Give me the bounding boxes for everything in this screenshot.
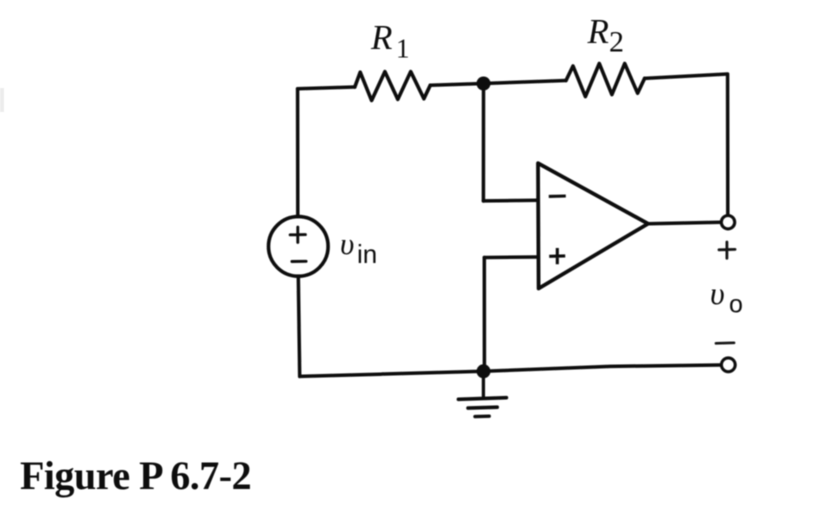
label vin bbox=[340, 226, 377, 269]
output terminal + (open circle top) bbox=[721, 216, 734, 229]
wire R1 to node A bbox=[430, 84, 483, 86]
wire top-left horizontal bbox=[298, 87, 355, 89]
wire node A down to inverting input bbox=[482, 84, 486, 202]
svg-text:υ: υ bbox=[340, 226, 354, 261]
svg-text:2: 2 bbox=[609, 26, 624, 59]
wire left vertical (top corner to source) bbox=[296, 89, 300, 217]
svg-text:R: R bbox=[370, 18, 392, 57]
wire inverting input horizontal bbox=[483, 199, 538, 203]
svg-text:1: 1 bbox=[396, 34, 410, 64]
wire bottom-left vertical (source to rail) bbox=[298, 276, 299, 376]
wire noninverting input horizontal bbox=[484, 255, 538, 259]
wire noninverting input down to ground rail bbox=[483, 258, 487, 372]
minus polarity mark at vo bbox=[716, 341, 734, 344]
ground junction dot bbox=[477, 364, 491, 378]
wire bottom rail left bbox=[300, 371, 484, 376]
caption Figure P 6.7-2 bbox=[20, 453, 251, 498]
label vo bbox=[710, 275, 743, 319]
svg-text:Figure P 6.7-2: Figure P 6.7-2 bbox=[20, 453, 251, 498]
node A junction dot bbox=[477, 77, 491, 91]
op-amp U1 bbox=[538, 163, 648, 288]
label R1 bbox=[370, 18, 410, 64]
wire op-amp output bbox=[648, 222, 721, 223]
wire R2 to top-right corner and down bbox=[645, 74, 728, 215]
wire bottom rail right bbox=[484, 365, 721, 371]
voltage source vin bbox=[269, 217, 329, 277]
svg-text:R: R bbox=[587, 12, 609, 51]
svg-text:in: in bbox=[357, 239, 377, 269]
ground bbox=[458, 371, 506, 416]
label R2 bbox=[587, 12, 625, 59]
svg-text:υ: υ bbox=[710, 275, 725, 311]
svg-text:o: o bbox=[729, 291, 743, 319]
resistor R2 bbox=[566, 64, 645, 97]
plus polarity mark at vo bbox=[719, 242, 735, 258]
faint page-edge smudge bbox=[0, 88, 4, 112]
output terminal - (open circle bottom) bbox=[721, 358, 735, 372]
resistor R1 bbox=[355, 72, 431, 101]
wire node A to R2 bbox=[484, 81, 567, 84]
